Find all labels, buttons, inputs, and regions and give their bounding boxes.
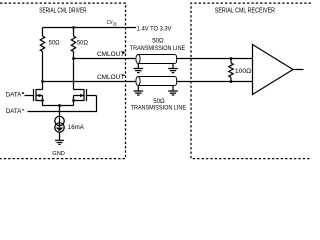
wire T2 output	[177, 81, 253, 83]
transmission line T2 bottom	[138, 77, 177, 86]
wire CMLOUT+	[74, 58, 136, 60]
svg-text:100Ω: 100Ω	[235, 68, 252, 75]
resistor 100ohm R3	[229, 59, 233, 82]
wire tail	[43, 105, 74, 107]
node R3 bottom	[230, 80, 233, 83]
svg-text:TRANSMISSION LINE: TRANSMISSION LINE	[130, 45, 185, 52]
svg-text:DD: DD	[113, 22, 117, 27]
svg-text:CMLOUT: CMLOUT	[97, 51, 124, 58]
svg-text:DATA: DATA	[6, 91, 22, 98]
wire CMLOUT-	[43, 81, 136, 83]
resistor 50ohm R1	[40, 28, 44, 90]
node CMLOUT- tap	[41, 80, 44, 83]
ground T2 left	[134, 86, 144, 96]
node R3 top	[230, 57, 233, 60]
transmission line T1 top	[138, 55, 177, 64]
ground GND	[55, 140, 64, 144]
current source I1 16mA	[55, 116, 64, 125]
ground T1 left	[134, 64, 144, 73]
transistor Q1 left NMOS	[25, 89, 43, 106]
svg-text:GND: GND	[52, 151, 65, 157]
wire current source drop	[59, 106, 61, 117]
node rail-R2 junction	[72, 26, 75, 29]
svg-text:1.4V TO 3.3V: 1.4V TO 3.3V	[137, 26, 172, 33]
receiver dashed box	[191, 3, 311, 159]
ground T1 right	[168, 64, 178, 73]
op-amp U1 receiver triangle	[253, 45, 294, 95]
wire DATA- run to Q2 gate	[28, 96, 97, 112]
svg-text:DATA: DATA	[6, 108, 22, 115]
svg-text:50Ω: 50Ω	[77, 40, 88, 47]
node CMLOUT+ tap	[72, 57, 75, 60]
wire U1 output	[293, 69, 304, 71]
svg-text:50Ω: 50Ω	[152, 38, 164, 45]
node tail junction	[58, 104, 61, 107]
svg-text:16mA: 16mA	[68, 124, 85, 131]
node Q2 bulk-source junction	[72, 99, 75, 102]
svg-text:SERIAL CML RECEIVER: SERIAL CML RECEIVER	[215, 8, 275, 15]
ground T2 right	[168, 86, 178, 96]
svg-text:SERIAL CML DRIVER: SERIAL CML DRIVER	[39, 8, 86, 15]
wire supply rail CVDD	[43, 27, 137, 29]
wire T1 output	[177, 58, 253, 60]
svg-text:CMLOUT: CMLOUT	[97, 74, 124, 81]
svg-text:TRANSMISSION LINE: TRANSMISSION LINE	[131, 105, 186, 112]
transistor Q2 right NMOS	[74, 89, 97, 106]
wire current source to ground	[59, 132, 61, 140]
svg-text:50Ω: 50Ω	[49, 40, 60, 47]
resistor 50ohm R2	[71, 28, 75, 90]
driver dashed box	[0, 3, 126, 159]
node Q1 bulk-source junction	[41, 99, 44, 102]
